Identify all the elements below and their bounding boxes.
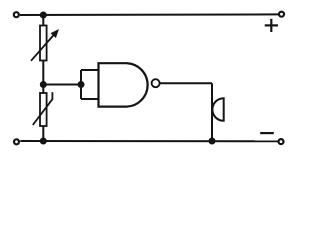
wire top input stub — [81, 69, 99, 71]
label + (positive supply) — [265, 19, 278, 32]
node C (junction of left branch and bottom rail) — [40, 138, 47, 145]
node D (junction feeding both gate inputs) — [78, 81, 85, 88]
wire bottom input stub — [81, 98, 99, 100]
wire from node B to node D — [43, 84, 81, 86]
node B (divider midpoint) — [40, 81, 47, 88]
terminal T4 (bottom right, open circle) — [279, 139, 284, 144]
terminal T1 (top left, open circle) — [14, 12, 19, 17]
node E (junction of output branch and bottom rail) — [209, 138, 216, 145]
wire from node B to VR2 — [42, 85, 44, 94]
wire from VR2 to node C — [42, 126, 44, 141]
earphone LS1 (half-disc, flat side right) — [212, 98, 223, 121]
label - (negative supply) — [260, 132, 274, 134]
node A (junction of left branch and top rail) — [40, 12, 47, 19]
wire from node A to VR1 — [42, 15, 44, 26]
terminal T3 (bottom left, open circle) — [14, 139, 19, 144]
variable resistor VR1 — [31, 26, 59, 61]
NAND gate U1 — [99, 63, 160, 106]
wire top rail — [20, 13, 279, 16]
variable resistor VR2 (preset, bar-ended stem) — [33, 92, 53, 126]
wire input tie bar — [80, 70, 82, 99]
terminal T2 (top right, open circle) — [279, 12, 284, 17]
wire from VR1 to node B — [42, 61, 44, 85]
wire gate output vertical — [211, 83, 213, 141]
wire bottom rail — [20, 140, 278, 142]
wire gate output horizontal — [160, 82, 212, 84]
